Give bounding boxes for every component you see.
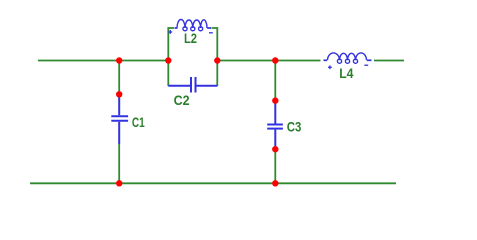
- wire top rail left segment: [38, 60, 168, 62]
- L2 polarity minus: [209, 32, 213, 34]
- svg-text:L4: L4: [339, 65, 353, 81]
- wire top rail middle segment (node B to C3 top to L4): [217, 60, 320, 62]
- pin node C3 top: [272, 97, 278, 103]
- wire bottom rail: [30, 182, 396, 184]
- wire tank right vertical (node B through L2/C2 loop): [212, 28, 218, 86]
- wire C1 branch upper (top rail to C1 pin): [118, 61, 120, 95]
- junction node C1 bottom rail: [116, 180, 122, 186]
- capacitor C1: [111, 94, 128, 144]
- inductor L4: [324, 53, 372, 63]
- junction node B (tank right on top rail): [214, 57, 220, 63]
- svg-text:C2: C2: [174, 92, 190, 108]
- junction node A (tank left on top rail): [165, 57, 171, 63]
- pin node C3 bottom: [272, 146, 278, 152]
- wire C1 branch lower (C1 lead to bottom rail): [118, 144, 120, 183]
- junction node C3 top rail: [272, 57, 278, 63]
- capacitor C3: [267, 101, 283, 150]
- L4 polarity minus: [364, 64, 368, 66]
- junction node C3 bottom rail: [272, 180, 278, 186]
- capacitor C2: [168, 77, 217, 93]
- svg-text:C3: C3: [287, 119, 302, 135]
- svg-text:L2: L2: [184, 30, 197, 46]
- L2 polarity plus: [168, 30, 172, 34]
- wire tank left vertical (node A through L2/C2 loop): [168, 28, 174, 86]
- svg-text:C1: C1: [132, 114, 145, 130]
- junction node C1 top rail: [116, 57, 122, 63]
- pin node C1 top: [116, 91, 122, 97]
- inductor L2: [175, 20, 212, 31]
- wire top rail right segment (after L4): [374, 60, 404, 62]
- wire C3 branch lower (C3 bottom pin to bottom rail): [274, 149, 276, 183]
- wire C3 branch upper (top rail to C3 top pin): [274, 61, 276, 101]
- L4 polarity plus: [328, 65, 332, 69]
